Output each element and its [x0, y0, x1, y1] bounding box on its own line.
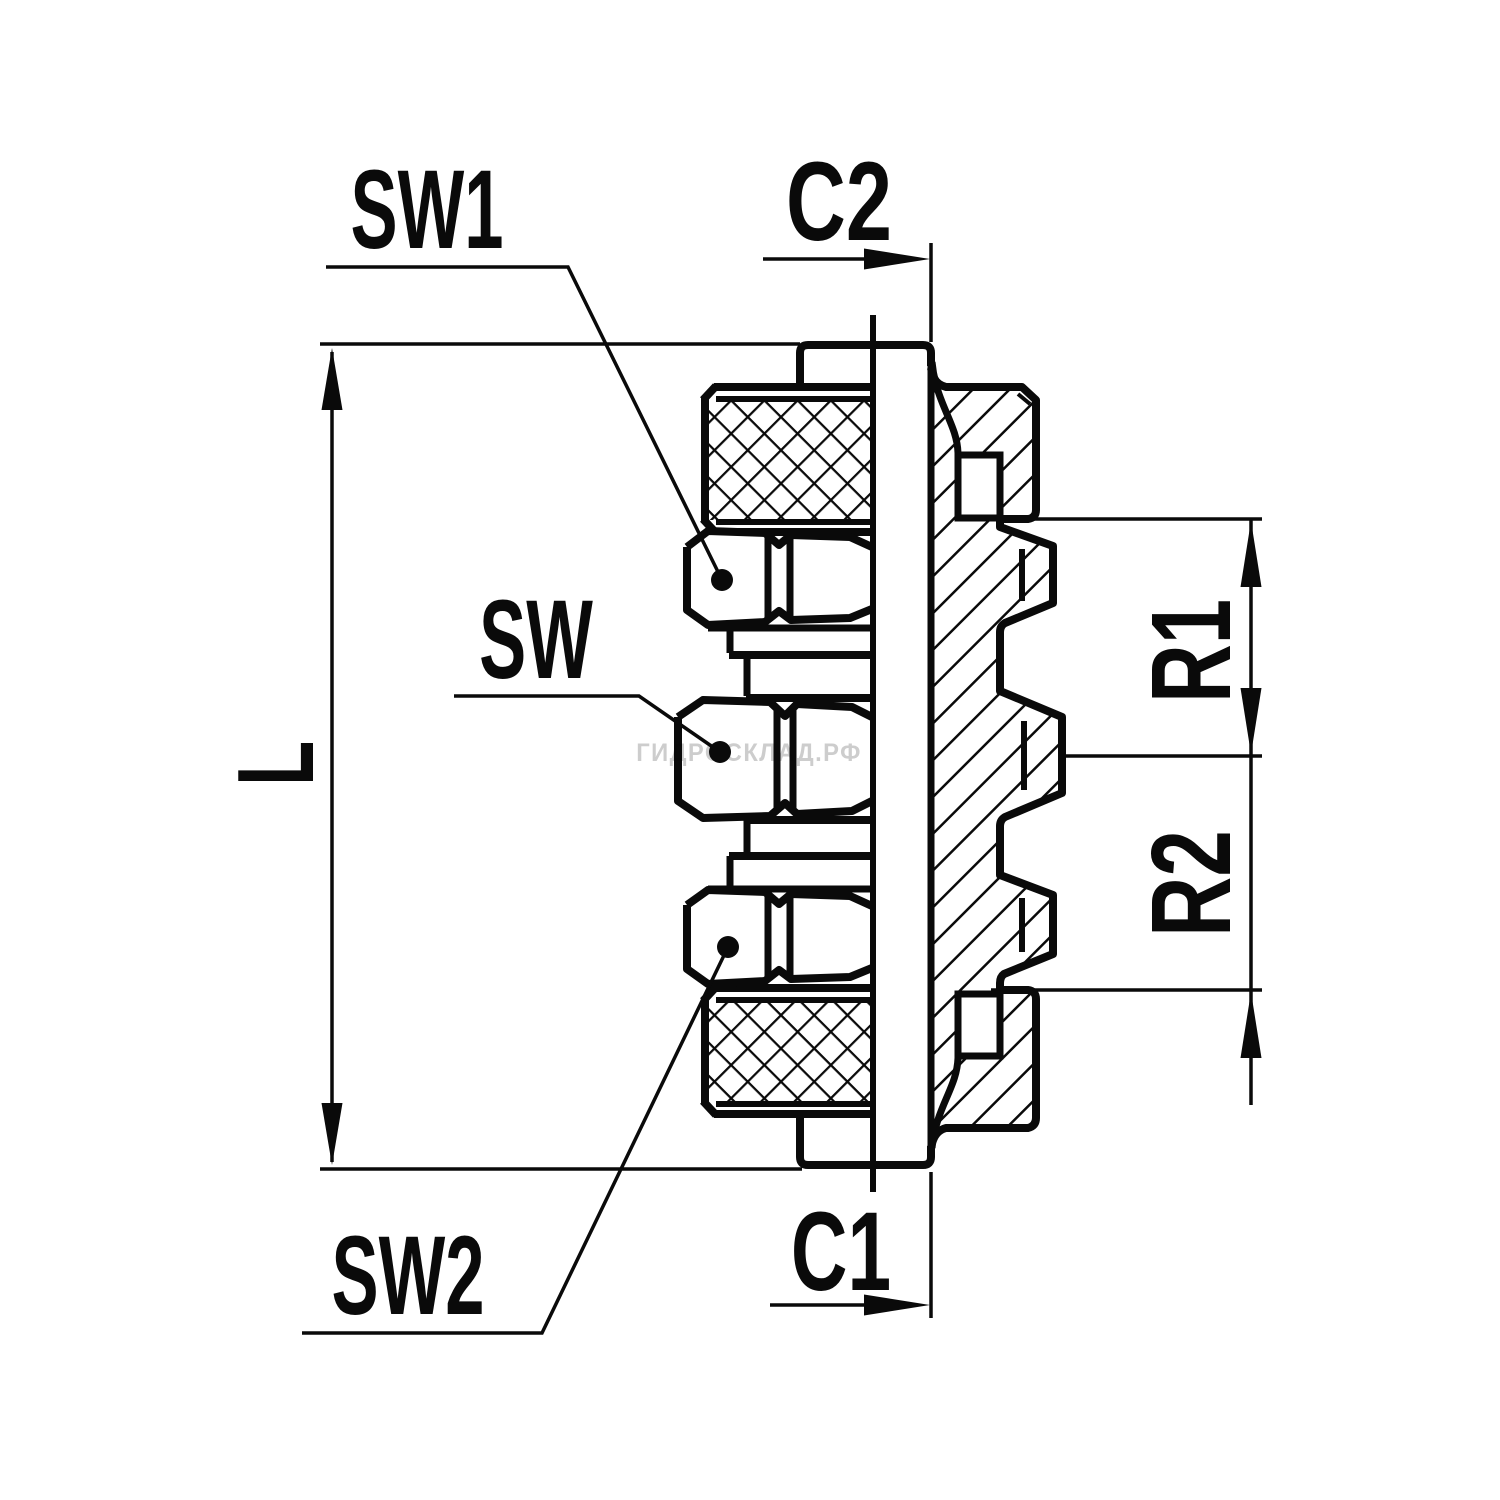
dimension R1	[991, 517, 1262, 521]
svg-text:C1: C1	[791, 1189, 891, 1314]
label SW1	[351, 146, 504, 272]
dimension L line with arrows	[330, 352, 334, 1162]
top knurled ring	[703, 386, 872, 533]
thread runout curve top	[932, 362, 958, 453]
svg-text:R2: R2	[1129, 830, 1255, 937]
body left edge line	[928, 352, 935, 1158]
step collar above bottom nut	[708, 820, 872, 889]
left assembly	[678, 315, 931, 1192]
dimension L text	[215, 741, 337, 786]
label SW	[479, 576, 593, 702]
svg-text:L: L	[215, 741, 337, 786]
watermark	[636, 739, 862, 767]
dimension C2	[786, 139, 892, 264]
top sleeve	[800, 345, 931, 386]
svg-text:C2: C2	[786, 139, 892, 264]
label SW2	[332, 1212, 485, 1338]
step collar below top nut	[708, 628, 872, 698]
svg-text:SW1: SW1	[351, 146, 504, 272]
dimensions	[215, 139, 1262, 1338]
svg-text:ГИДРОСКЛАД.РФ: ГИДРОСКЛАД.РФ	[636, 739, 862, 767]
svg-text:R1: R1	[1128, 599, 1254, 703]
o-ring groove top	[958, 455, 1000, 518]
bottom sleeve	[800, 1116, 931, 1165]
chamfer edge line top flange	[1018, 394, 1030, 404]
hex facet line middle	[1021, 721, 1027, 790]
bottom knurled ring	[703, 987, 872, 1115]
dimension C1	[791, 1189, 891, 1314]
dimension R2	[991, 988, 1262, 992]
svg-text:SW2: SW2	[332, 1212, 485, 1338]
top nut SW1	[687, 531, 872, 625]
leader SW	[454, 696, 720, 752]
leader SW1	[326, 267, 722, 580]
dimension L extension lines	[320, 342, 800, 346]
body cross-section hatched	[931, 352, 1062, 1158]
panel plate left surface line	[870, 315, 876, 1192]
bottom nut SW2	[687, 890, 872, 984]
leader SW2	[302, 947, 728, 1333]
svg-text:SW: SW	[479, 576, 593, 702]
hex facet line lower	[1019, 898, 1025, 952]
hex facet line upper	[1019, 549, 1025, 601]
o-ring groove bottom	[958, 994, 1000, 1056]
thread runout curve bottom	[932, 1058, 958, 1148]
middle nut SW	[678, 700, 872, 818]
fitting body section profile	[931, 368, 1062, 1148]
